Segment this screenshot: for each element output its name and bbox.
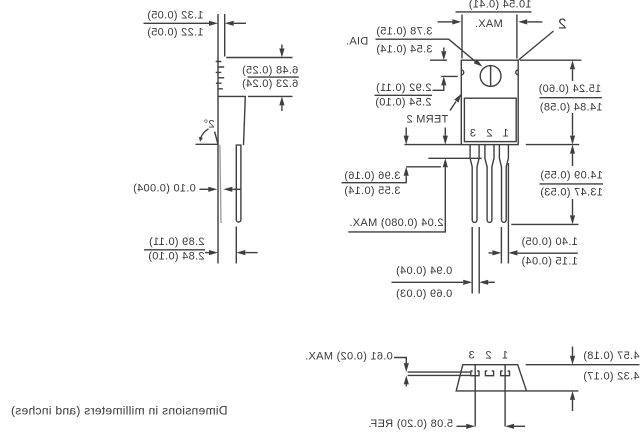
front view right notch [516,70,518,75]
dimension 15.24/14.84 text [538,83,602,113]
dimension 10.54 arrows [438,19,543,24]
svg-text:2: 2 [558,16,567,33]
dimension 4.57 arrows [570,347,575,412]
svg-text:1: 1 [502,128,508,140]
dimension 2.89/2.84 text [144,236,205,262]
svg-text:15.24 (0.60): 15.24 (0.60) [538,83,601,95]
svg-text:2: 2 [485,350,491,362]
svg-text:Dimensions in millimeters (and: Dimensions in millimeters (and inches) [11,404,228,418]
svg-text:1.15 (0.04): 1.15 (0.04) [521,256,578,268]
svg-text:3: 3 [470,128,476,140]
dimension 6.48/6.23 extension lines [226,58,292,97]
svg-text:2°: 2° [203,119,214,131]
tab top extension right [520,59,582,61]
dimension 0.94/0.69 text [396,265,453,300]
svg-text:4.32 (0.17): 4.32 (0.17) [583,370,640,382]
body bottom extension line left [404,144,461,146]
dimension 1.32/1.22 arrows [204,21,246,26]
tab top corner extension lines [462,15,517,59]
svg-text:6.48 (0.25): 6.48 (0.25) [242,65,299,77]
dimension 6.48/6.23 arrows [279,45,284,112]
svg-text:2.84 (0.10): 2.84 (0.10) [148,250,205,262]
front view lead 2 [485,145,494,223]
svg-text:3.54 (0.14): 3.54 (0.14) [376,43,433,55]
dim arrows onto body bottom [404,128,448,145]
front view left notch [461,70,463,75]
svg-text:2.54 (0.10): 2.54 (0.10) [375,96,432,108]
hole DIA text [346,25,433,55]
dimension 0.94 arrows [392,280,495,285]
dimension 10.54 MAX text [456,0,532,30]
svg-text:0.10 (0.004): 0.10 (0.004) [133,182,196,194]
side view body outline [218,96,245,145]
bottom view outline [456,365,526,391]
side view lead extension line [235,227,237,264]
svg-text:6.23 (0.24): 6.23 (0.24) [242,78,299,90]
front view outer body [461,60,518,144]
svg-text:1.32 (0.05): 1.32 (0.05) [147,9,204,21]
hole DIA leader [376,39,483,66]
dimension 2.92/2.54 text [375,82,433,108]
dimension 2.92 arrows [433,48,458,91]
svg-text:5.08 (0.20) REF.: 5.08 (0.20) REF. [368,418,453,430]
svg-text:0.69 (0.03): 0.69 (0.03) [396,288,453,300]
2 deg draft line [215,132,218,145]
svg-text:2: 2 [486,128,492,140]
dimension 1.40 extension lines [501,163,508,264]
dimension 3.96/3.55 text [344,170,401,197]
side view tab edge lines [218,14,225,264]
svg-text:0.94 (0.04): 0.94 (0.04) [396,265,453,277]
front view lead 1 (right in mirror) [470,145,479,223]
svg-text:2.92 (0.11): 2.92 (0.11) [376,82,432,94]
dimension 3.96 arrow and leader [342,167,409,183]
dimension 1.40/1.15 text [521,236,578,268]
2 deg arc leader [199,129,209,142]
front view lead 3 [499,145,508,223]
dimension 0.10 arrows [200,187,242,192]
dimension 1.40 arrows [489,250,578,255]
dimension 5.08 extension lines [475,365,505,427]
lead tip extension line [511,223,578,225]
dimension 14.09/13.47 text [540,169,604,198]
svg-text:3: 3 [468,350,474,362]
svg-text:10.54 (0.41): 10.54 (0.41) [469,0,532,11]
svg-text:3.55 (0.14): 3.55 (0.14) [344,185,401,197]
svg-text:1.40 (0.05): 1.40 (0.05) [521,236,578,248]
svg-text:3.96 (0.16): 3.96 (0.16) [344,170,401,182]
front view inner body rect [464,98,516,141]
note 2 leader [519,31,554,60]
dimension 1.32/1.22 text [144,9,205,38]
dimension 2.89/2.84 arrows [205,250,258,255]
side view lead [236,145,241,222]
TERM 2 leader [450,94,461,111]
dimension 15.24 arrows [570,60,575,144]
dimension 6.48/6.23 text [242,65,299,91]
dimension 4.57 extension lines [526,365,640,391]
bottom view tab slab lines [408,372,471,375]
2 deg reference line [196,143,219,145]
svg-text:3.78 (0.15): 3.78 (0.15) [376,25,433,37]
svg-text:13.47 (0.53): 13.47 (0.53) [540,187,603,199]
dimension 14.09 arrows [570,145,575,225]
tab top extension left [430,59,447,61]
front view mounting hole [480,66,501,87]
dimension 2.04 arrow and leader [348,158,448,232]
svg-text:0.61 (0.02) MAX.: 0.61 (0.02) MAX. [305,350,393,362]
taper end extension line [406,166,441,168]
bottom view pin 2 section [485,371,493,376]
svg-text:14.09 (0.55): 14.09 (0.55) [540,169,603,181]
front view pin labels [470,128,509,140]
side view body face offset (gray) [220,145,221,223]
svg-text:DIA.: DIA. [346,35,369,47]
svg-text:MAX.: MAX. [475,18,503,30]
bottom view pin 1 section [501,371,510,376]
bottom view pin labels [468,350,508,362]
dimension 0.94 extension lines [472,227,479,294]
svg-text:1: 1 [502,350,508,362]
taper start extension line [428,157,481,159]
svg-text:2.04 (0.080) MAX.: 2.04 (0.080) MAX. [349,217,443,229]
svg-text:TERM 2: TERM 2 [406,114,448,126]
svg-text:4.57 (0.18): 4.57 (0.18) [583,350,640,362]
dimension 0.61 leader and arrows [394,358,409,387]
body bottom extension right [526,144,579,146]
svg-text:2.89 (0.11): 2.89 (0.11) [149,236,205,248]
svg-text:1.22 (0.05): 1.22 (0.05) [147,27,204,39]
svg-text:14.84 (0.58): 14.84 (0.58) [540,101,603,113]
dimension 4.57/4.32 text [583,350,640,383]
side view tab serrations [216,62,225,89]
bottom view pin 3 section [471,371,479,376]
dimension 5.08 arrows [457,424,526,429]
